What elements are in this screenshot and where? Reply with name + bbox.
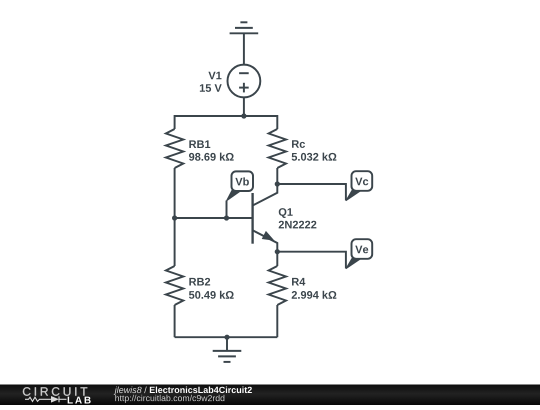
wire top rail xyxy=(175,116,278,129)
wire emitter to Ve probe xyxy=(277,252,346,269)
logo LAB xyxy=(68,397,91,404)
resistor RB2 50.49 k ohm xyxy=(166,266,234,305)
wire to bottom ground xyxy=(226,337,228,351)
probe Ve xyxy=(346,239,372,269)
node base Vb stub xyxy=(224,215,229,220)
transistor Q1 2N2222 xyxy=(253,184,317,252)
ground top xyxy=(230,22,259,33)
logo resistor diode glyph xyxy=(25,396,67,402)
ground bottom xyxy=(213,351,242,362)
wire Vb probe stub xyxy=(226,201,228,219)
footer bar xyxy=(0,385,540,406)
wire top ground to V1 xyxy=(243,33,245,64)
node base at left rail xyxy=(172,215,177,220)
footer credit line xyxy=(114,386,142,394)
wire emitter to R4 xyxy=(276,252,278,266)
node emitter xyxy=(275,249,280,254)
probe Vb xyxy=(227,171,254,200)
logo CIRCUIT xyxy=(23,387,87,396)
resistor Rc 5.032 k ohm xyxy=(269,129,337,168)
voltage source V1 15 V xyxy=(200,65,260,98)
node top rail junction xyxy=(241,113,246,118)
resistor RB1 98.69 k ohm xyxy=(166,129,234,168)
wire collector to Vc probe xyxy=(277,184,346,200)
wire left rail RB1 to RB2 xyxy=(174,168,176,266)
node collector xyxy=(275,181,280,186)
resistor R4 2.994 k ohm xyxy=(269,266,337,305)
wire base rail xyxy=(175,217,253,219)
wire Rc to collector node xyxy=(276,168,278,184)
wire bottom rail xyxy=(175,336,278,338)
node bottom ground junction xyxy=(224,335,229,340)
wire RB2 to bottom rail xyxy=(174,305,176,337)
wire R4 to bottom rail xyxy=(276,305,278,337)
wire V1 to top rail xyxy=(243,97,245,116)
footer url line xyxy=(115,395,224,403)
probe Vc xyxy=(346,171,372,201)
